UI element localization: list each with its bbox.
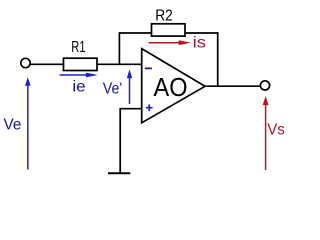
svg-text:Ve': Ve' (103, 80, 122, 97)
voltage arrow Ve (25, 77, 31, 169)
resistor R2 (152, 24, 186, 36)
current arrow is (149, 40, 191, 45)
op-amp U1 triangle (142, 49, 205, 123)
node Ve input terminal (21, 58, 30, 67)
wire: R2 to right vertical (185, 32, 219, 34)
svg-text:ie: ie (72, 78, 85, 95)
current arrow ie (60, 73, 98, 78)
wire: feedback horizontal to R2 (119, 32, 152, 34)
ground (108, 172, 130, 174)
node Vs output terminal (260, 81, 269, 90)
svg-text:R2: R2 (155, 8, 173, 25)
wire: non-inverting input horizontal (120, 108, 142, 110)
svg-text:Vs: Vs (267, 122, 285, 139)
voltage arrow Vs (263, 96, 269, 170)
svg-text:AO: AO (154, 74, 188, 102)
wire: R1 to op-amp inverting input (97, 63, 142, 65)
svg-text:is: is (193, 35, 207, 52)
wire: input terminal to R1 (30, 63, 64, 65)
resistor R1 (64, 58, 98, 70)
op-amp non-inverting pin plus sign (146, 104, 153, 111)
op-amp inverting pin minus sign (145, 67, 152, 69)
wire: feedback right vertical down to output (217, 32, 219, 86)
wire: feedback tap vertical at node Ve' (118, 33, 120, 65)
svg-text:Ve: Ve (4, 116, 22, 133)
svg-text:R1: R1 (71, 39, 85, 56)
voltage arrow Ve' (127, 69, 132, 104)
wire: op-amp output to terminal (205, 85, 261, 87)
wire: vertical down to ground (119, 108, 121, 173)
